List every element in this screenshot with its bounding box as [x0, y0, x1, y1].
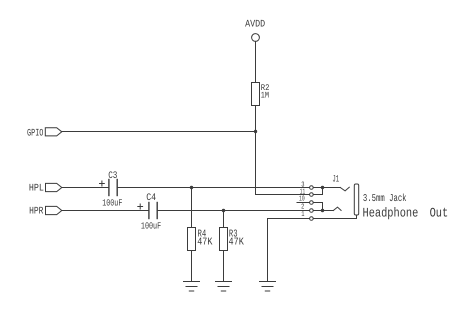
- port GPIO: [27, 128, 62, 140]
- wire junction down to R4: [191, 188, 193, 228]
- wire R2 down to pin 11 branch: [255, 106, 257, 195]
- svg-text:J1: J1: [332, 174, 339, 185]
- wire R3 to ground: [223, 251, 225, 282]
- wire junction down to R3: [223, 211, 225, 228]
- wire pin 10 bracket: [313, 203, 322, 211]
- pin 1 circle: [301, 211, 313, 221]
- wire pin 3 to tip contact: [313, 187, 340, 189]
- wire HPL to C3: [62, 187, 109, 189]
- svg-text:47K: 47K: [197, 236, 213, 248]
- wire R4 to ground: [191, 251, 193, 282]
- resistor R4: [188, 228, 213, 251]
- wire jack pin 1 to ground: [268, 219, 310, 282]
- svg-text:GPIO: GPIO: [27, 128, 43, 139]
- wire HPR to C4: [62, 210, 149, 212]
- wire C4 to jack pin 2: [157, 210, 309, 212]
- svg-text:Out: Out: [430, 206, 449, 221]
- resistor R3: [220, 228, 245, 251]
- ground (jack sleeve): [260, 282, 276, 292]
- svg-text:10: 10: [299, 196, 305, 204]
- wire GPIO to R2 net: [62, 131, 256, 133]
- ground (R3): [216, 282, 232, 292]
- junction HPR/R3: [222, 209, 225, 212]
- wire pin 11 bracket: [313, 188, 322, 195]
- wire C3 to jack pin 3: [117, 187, 309, 189]
- junction GPIO/R2: [254, 130, 257, 133]
- capacitor C3: [100, 171, 123, 209]
- pin 10 circle and stub: [297, 196, 313, 205]
- port HPL: [29, 183, 62, 194]
- wire pin 2 to ring contact: [313, 210, 333, 212]
- junction pin3/pin11: [321, 186, 324, 189]
- port HPR: [29, 206, 62, 217]
- svg-text:Headphone: Headphone: [363, 206, 419, 221]
- junction pin2/pin10: [321, 209, 324, 212]
- wire R2 net to pin 11: [256, 194, 310, 196]
- jack J1 barrel: [354, 184, 358, 215]
- junction HPL/R4: [190, 186, 193, 189]
- svg-text:AVDD: AVDD: [245, 20, 265, 31]
- svg-text:47K: 47K: [229, 236, 245, 248]
- svg-text:HPR: HPR: [29, 207, 43, 218]
- pin 11 circle: [300, 188, 313, 196]
- resistor R2: [252, 83, 270, 106]
- svg-text:100uF: 100uF: [102, 198, 122, 209]
- power symbol AVDD: [245, 20, 265, 42]
- capacitor C4: [138, 193, 161, 232]
- wire pin 1 to sleeve: [313, 215, 356, 219]
- svg-text:C3: C3: [108, 171, 117, 182]
- jack ring contact: [333, 207, 341, 210]
- svg-text:3.5mm Jack: 3.5mm Jack: [363, 193, 407, 205]
- pin 2 circle: [301, 204, 313, 213]
- svg-text:1: 1: [301, 211, 305, 219]
- jack tip contact: [340, 187, 349, 191]
- ground (R4): [184, 282, 200, 292]
- svg-text:1M: 1M: [261, 91, 269, 101]
- svg-text:C4: C4: [146, 193, 156, 204]
- wire AVDD to R2: [255, 41, 257, 82]
- svg-text:HPL: HPL: [29, 183, 44, 194]
- svg-text:100uF: 100uF: [141, 221, 161, 232]
- pin 3 circle: [301, 181, 313, 189]
